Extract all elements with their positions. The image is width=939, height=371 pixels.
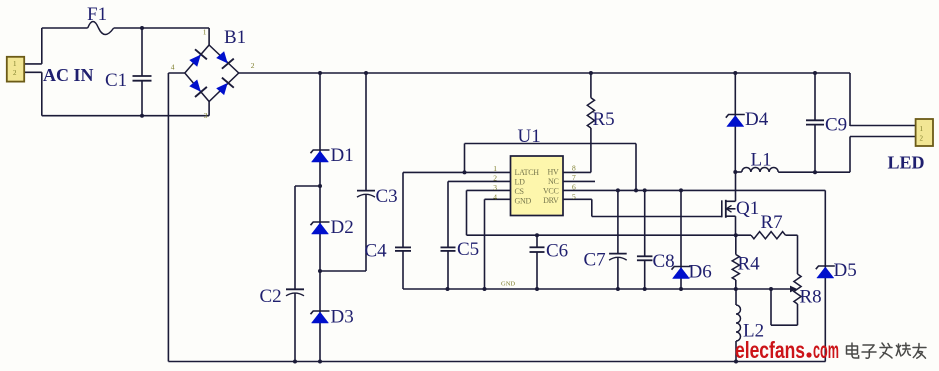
svg-text:1: 1 — [203, 28, 207, 37]
svg-text:5: 5 — [572, 192, 576, 201]
svg-text:1: 1 — [13, 60, 17, 68]
svg-text:C6: C6 — [546, 241, 568, 262]
svg-text:R7: R7 — [761, 212, 783, 233]
svg-text:D6: D6 — [689, 262, 712, 283]
svg-text:D5: D5 — [834, 260, 857, 281]
svg-text:D1: D1 — [331, 145, 354, 166]
svg-text:DRV: DRV — [543, 196, 559, 205]
svg-text:3: 3 — [493, 183, 497, 192]
svg-text:C8: C8 — [653, 251, 675, 272]
svg-text:2: 2 — [13, 69, 17, 77]
svg-text:R8: R8 — [800, 287, 822, 308]
svg-text:Q1: Q1 — [736, 198, 759, 219]
svg-text:R4: R4 — [738, 254, 761, 275]
svg-text:GND: GND — [501, 281, 515, 288]
svg-text:C4: C4 — [365, 241, 388, 262]
svg-text:CS: CS — [515, 187, 524, 196]
svg-text:F1: F1 — [87, 4, 107, 25]
svg-text:2: 2 — [251, 61, 255, 70]
svg-text:LATCH: LATCH — [515, 168, 540, 177]
svg-text:3: 3 — [204, 111, 208, 120]
svg-text:4: 4 — [493, 193, 497, 202]
svg-text:NC: NC — [548, 177, 559, 186]
svg-text:com: com — [813, 337, 839, 363]
svg-text:L1: L1 — [751, 150, 772, 171]
svg-text:C5: C5 — [457, 239, 479, 260]
svg-text:U1: U1 — [518, 126, 541, 147]
svg-text:7: 7 — [572, 173, 576, 182]
svg-text:elecfans: elecfans — [735, 337, 805, 363]
svg-text:B1: B1 — [224, 27, 246, 48]
svg-text:LED: LED — [888, 153, 925, 173]
svg-text:AC IN: AC IN — [43, 65, 94, 85]
svg-text:C2: C2 — [260, 286, 282, 307]
svg-text:LD: LD — [515, 178, 526, 187]
svg-text:1: 1 — [920, 125, 924, 133]
svg-text:D3: D3 — [331, 307, 354, 328]
svg-text:GND: GND — [515, 197, 532, 206]
svg-text:R5: R5 — [593, 109, 615, 130]
svg-text:C7: C7 — [584, 250, 606, 271]
svg-text:2: 2 — [493, 174, 497, 183]
svg-text:6: 6 — [572, 183, 576, 192]
svg-text:C3: C3 — [376, 186, 398, 207]
svg-text:2: 2 — [920, 135, 924, 143]
svg-text:1: 1 — [493, 164, 497, 173]
svg-text:C1: C1 — [105, 70, 127, 91]
svg-text:C9: C9 — [825, 115, 847, 136]
svg-text:4: 4 — [171, 63, 175, 72]
svg-text:VCC: VCC — [543, 187, 559, 196]
svg-text:HV: HV — [548, 168, 559, 177]
svg-text:D2: D2 — [331, 217, 354, 238]
svg-text:D4: D4 — [745, 109, 769, 130]
svg-text:8: 8 — [572, 164, 576, 173]
